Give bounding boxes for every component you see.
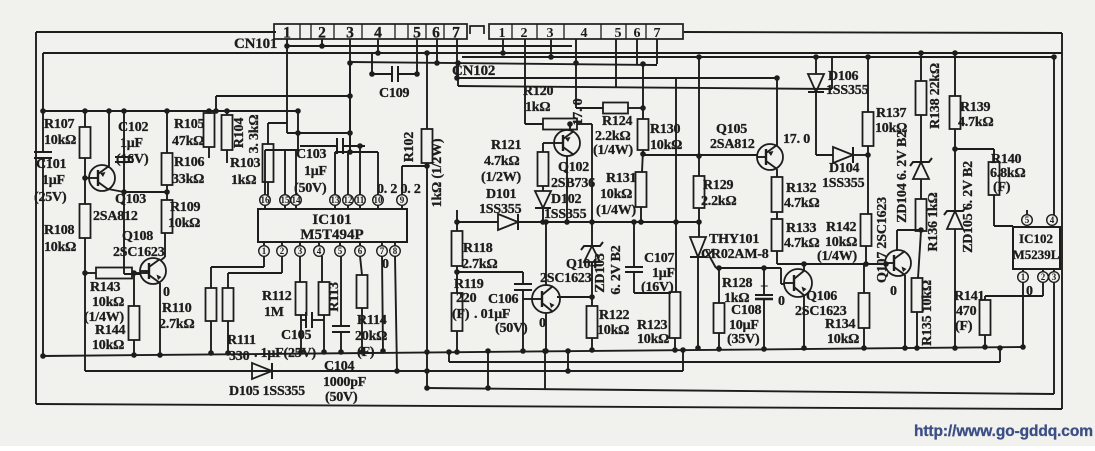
junction bbox=[918, 50, 924, 56]
wire Q104 emitter to R122 bbox=[557, 296, 592, 298]
junction bbox=[347, 60, 353, 66]
svg-text:10kΩ: 10kΩ bbox=[44, 240, 76, 255]
wire THY101 cathode bbox=[697, 256, 699, 348]
resistor R107 bbox=[44, 117, 91, 158]
svg-text:5: 5 bbox=[413, 25, 421, 42]
svg-text:6: 6 bbox=[634, 26, 641, 41]
junction bbox=[673, 219, 679, 225]
svg-text:2.7kΩ: 2.7kΩ bbox=[159, 317, 195, 332]
notch between connectors bbox=[470, 26, 484, 34]
wire C101 bottom bbox=[42, 158, 44, 356]
svg-text:7: 7 bbox=[380, 246, 385, 256]
svg-text:R120: R120 bbox=[523, 84, 554, 99]
wire R118 top lead bbox=[456, 222, 458, 231]
wire R121-D102 bbox=[542, 186, 544, 191]
svg-text:R110: R110 bbox=[162, 301, 192, 316]
resistor R139 bbox=[950, 96, 994, 130]
wire R112 bottom bbox=[300, 315, 302, 352]
junction bbox=[982, 344, 988, 350]
svg-text:7: 7 bbox=[654, 26, 661, 41]
svg-text:(50V): (50V) bbox=[294, 181, 327, 196]
junction bbox=[761, 346, 767, 352]
wire CN101 pin5 bbox=[416, 39, 418, 74]
wire CN102 pin4 bbox=[575, 39, 577, 108]
junction bbox=[716, 346, 722, 352]
wire rail 362 stub bbox=[448, 352, 450, 362]
connector CN101 bbox=[234, 24, 467, 52]
wire R114 bottom bbox=[361, 308, 363, 352]
svg-text:10kΩ: 10kΩ bbox=[827, 332, 859, 347]
junction bbox=[952, 50, 958, 56]
svg-text:(1/2W): (1/2W) bbox=[481, 170, 522, 185]
svg-text:R138 22kΩ: R138 22kΩ bbox=[928, 63, 943, 129]
junction bbox=[500, 50, 506, 56]
svg-text:Q108: Q108 bbox=[122, 229, 153, 244]
wire Q108 collector up bbox=[164, 233, 166, 257]
svg-text:10kΩ: 10kΩ bbox=[44, 133, 76, 148]
resistor R104 bbox=[222, 115, 263, 154]
junction bbox=[347, 93, 353, 99]
resistor R106 bbox=[162, 153, 205, 187]
wire R144 top lead bbox=[133, 273, 135, 306]
junction bbox=[548, 54, 554, 60]
wire C102 bottom column bbox=[123, 162, 125, 274]
svg-text:R139: R139 bbox=[960, 100, 991, 115]
junction bbox=[883, 261, 889, 267]
junction bbox=[952, 146, 958, 152]
wire CN101 pin4 bbox=[377, 39, 379, 53]
svg-text:(35V): (35V) bbox=[727, 332, 760, 347]
wire CN102 pin3 bbox=[550, 39, 552, 57]
resistor R113 bbox=[319, 282, 343, 315]
resistor R108 bbox=[44, 204, 91, 255]
svg-text:7: 7 bbox=[452, 25, 460, 42]
wire Q107 emitter bbox=[904, 275, 906, 348]
junction bbox=[485, 348, 491, 354]
resistor R132 bbox=[772, 177, 820, 212]
svg-text:3: 3 bbox=[1052, 272, 1057, 282]
junction bbox=[106, 108, 112, 114]
wire R120 left lead bbox=[525, 123, 543, 125]
svg-text:3: 3 bbox=[547, 26, 554, 41]
wire R103 top lead bbox=[267, 123, 269, 144]
junction bbox=[589, 219, 595, 225]
resistor R110 bbox=[159, 288, 217, 332]
wire pin1 jog to node bbox=[287, 132, 350, 134]
wire border top-right segment bbox=[684, 32, 1062, 33]
wire Q106 base col bbox=[780, 268, 782, 284]
wire pin15 stub bbox=[284, 150, 286, 195]
wire R134 bottom bbox=[863, 328, 865, 348]
junction bbox=[434, 60, 440, 66]
junction bbox=[520, 348, 526, 354]
junction bbox=[914, 345, 920, 351]
resistor R105 bbox=[172, 113, 215, 149]
transistor Q107 bbox=[885, 250, 911, 276]
svg-text:1M: 1M bbox=[264, 305, 284, 320]
wire C101 top bbox=[42, 53, 44, 152]
svg-text:1: 1 bbox=[283, 25, 291, 42]
junction bbox=[542, 348, 548, 354]
svg-text:5: 5 bbox=[338, 246, 343, 256]
svg-text:3: 3 bbox=[346, 25, 354, 42]
junction bbox=[295, 130, 301, 136]
svg-text:10kΩ: 10kΩ bbox=[600, 187, 632, 202]
svg-text:10kΩ: 10kΩ bbox=[92, 338, 124, 353]
wire R122 bottom bbox=[591, 338, 593, 350]
svg-text:6: 6 bbox=[432, 25, 440, 42]
svg-text:6. 2V B2: 6. 2V B2 bbox=[609, 245, 624, 294]
resistor R114 bbox=[355, 275, 387, 360]
wire D106 top lead bbox=[815, 57, 817, 74]
resistor R140 bbox=[989, 152, 1026, 195]
junction bbox=[680, 347, 686, 353]
wire R104 bottom lead bbox=[226, 150, 228, 163]
junction bbox=[1020, 344, 1026, 350]
junction bbox=[40, 108, 46, 114]
resistor R142 bbox=[817, 214, 872, 264]
resistor R112 bbox=[262, 282, 307, 320]
wire C108 bottom lead bbox=[763, 299, 765, 349]
junction bbox=[672, 347, 678, 353]
wire Q108 base lead bbox=[124, 273, 141, 275]
junction bbox=[543, 348, 549, 354]
svg-text:2: 2 bbox=[280, 246, 285, 256]
diode D104 bbox=[822, 147, 865, 191]
svg-text:R124: R124 bbox=[602, 114, 633, 129]
svg-text:10kΩ: 10kΩ bbox=[825, 235, 857, 250]
zener diode ZD103 bbox=[581, 242, 624, 295]
wire Q103 collector bbox=[108, 189, 124, 192]
junction bbox=[394, 368, 400, 374]
svg-text:R102: R102 bbox=[402, 132, 417, 163]
junction bbox=[321, 349, 327, 355]
junction bbox=[380, 348, 386, 354]
wire rail 362 right stub bbox=[999, 348, 1001, 362]
svg-text:4.7kΩ: 4.7kΩ bbox=[784, 196, 820, 211]
wire Q107 base lead bbox=[885, 263, 886, 265]
diode D102 bbox=[535, 191, 587, 222]
wire R140 bottom bbox=[993, 195, 995, 226]
svg-text:C104: C104 bbox=[324, 359, 355, 374]
svg-text:1: 1 bbox=[499, 26, 506, 41]
wire C103 right bbox=[343, 145, 365, 147]
resistor R122 bbox=[587, 306, 630, 338]
wire R107 top lead bbox=[84, 111, 86, 127]
svg-text:2SB736: 2SB736 bbox=[551, 176, 595, 191]
svg-text:R134: R134 bbox=[825, 317, 856, 332]
wire R124 right lead bbox=[628, 107, 643, 109]
wire R138-ZD104 bbox=[920, 115, 922, 162]
transistor Q104 bbox=[532, 257, 597, 313]
wire pin16 stub bbox=[264, 150, 266, 195]
junction bbox=[695, 345, 701, 351]
svg-text:17. 0: 17. 0 bbox=[571, 98, 586, 125]
wire rail A bbox=[287, 45, 572, 47]
wire border top-left segment bbox=[36, 31, 276, 33]
svg-text:C105: C105 bbox=[281, 328, 312, 343]
junction bbox=[414, 71, 420, 77]
capacitor C106 bbox=[452, 284, 532, 336]
svg-text:2.7kΩ: 2.7kΩ bbox=[462, 257, 498, 272]
wire pin3col down bbox=[349, 63, 351, 152]
junction bbox=[455, 60, 461, 66]
svg-text:2SC1623: 2SC1623 bbox=[113, 245, 165, 260]
wire stub 488 bbox=[487, 351, 489, 388]
wire R106 top lead bbox=[166, 111, 168, 153]
wire stub 568 bbox=[567, 351, 569, 371]
wire C105 left bbox=[301, 319, 306, 321]
resistor R109 bbox=[162, 200, 201, 233]
wire pin12 stub bbox=[347, 152, 349, 195]
resistor R144 bbox=[92, 306, 140, 353]
wire R135 bottom bbox=[916, 312, 918, 348]
wire ZD104-R136 bbox=[920, 179, 922, 199]
capacitor C104 bbox=[323, 326, 366, 405]
wire node268 bbox=[716, 267, 781, 269]
wire ZD103-R122 bbox=[591, 262, 593, 306]
svg-text:4: 4 bbox=[374, 25, 382, 42]
svg-text:Q104: Q104 bbox=[566, 257, 597, 272]
resistor R119 bbox=[452, 277, 484, 331]
capacitor C109 bbox=[379, 66, 410, 101]
svg-text:4.7kΩ: 4.7kΩ bbox=[958, 115, 994, 130]
wire CN102 pin2 bbox=[524, 39, 526, 124]
IC102 top pins 5 4 bbox=[1022, 215, 1058, 227]
wire C108 top lead bbox=[763, 268, 765, 295]
wire pin7 down bbox=[382, 256, 383, 351]
svg-text:5: 5 bbox=[615, 26, 622, 41]
wire R107-R108 bbox=[84, 158, 86, 204]
svg-text:2SA812: 2SA812 bbox=[710, 137, 755, 152]
junction bbox=[295, 108, 301, 114]
junction bbox=[631, 219, 637, 225]
wire pin1 horiz bbox=[211, 266, 264, 268]
svg-text:R137: R137 bbox=[876, 106, 907, 121]
wire R143 col down bbox=[84, 273, 86, 371]
wire R137 top lead bbox=[867, 57, 869, 112]
wire stub rail F right bbox=[831, 57, 833, 89]
wire IC102 pin3 down bbox=[1053, 282, 1055, 394]
wire pin16-14 rail bbox=[265, 149, 298, 151]
junction bbox=[424, 368, 430, 374]
svg-text:6: 6 bbox=[358, 246, 363, 256]
svg-text:R112: R112 bbox=[262, 289, 292, 304]
wire C106 branch bbox=[457, 271, 523, 273]
wire R140 top lead bbox=[993, 149, 995, 162]
wire C103 left bbox=[300, 145, 337, 147]
wire C106 top lead bbox=[522, 272, 524, 284]
wire Q103 emitter up bbox=[108, 111, 110, 168]
svg-text:10kΩ: 10kΩ bbox=[650, 138, 682, 153]
svg-text:10μF: 10μF bbox=[729, 318, 759, 333]
wire D104 right lead bbox=[853, 154, 868, 156]
wire pin2 horiz bbox=[228, 272, 282, 274]
wire C106 bottom lead bbox=[522, 290, 524, 351]
capacitor C103 bbox=[294, 138, 343, 196]
resistor R129 bbox=[694, 176, 737, 209]
wire pin8 down bbox=[395, 256, 397, 371]
transistor Q105 bbox=[710, 122, 783, 170]
svg-text:C108: C108 bbox=[731, 303, 762, 318]
wire Q108 collector jog bbox=[161, 257, 165, 260]
junction bbox=[1051, 54, 1057, 60]
svg-text:1μF: 1μF bbox=[304, 164, 327, 179]
wire stub C109 left bbox=[371, 53, 373, 74]
junction bbox=[565, 368, 571, 374]
wire node222 left bbox=[457, 221, 498, 223]
wire Q102 collector bbox=[569, 124, 571, 131]
junction bbox=[375, 50, 381, 56]
svg-text:1: 1 bbox=[1021, 272, 1026, 282]
svg-text:R119: R119 bbox=[454, 277, 484, 292]
svg-text:R128: R128 bbox=[722, 276, 753, 291]
wire R123 bottom bbox=[674, 338, 676, 350]
svg-text:17. 0: 17. 0 bbox=[783, 132, 810, 147]
wire IC102 pin1 down bbox=[1022, 282, 1024, 347]
svg-text:R111: R111 bbox=[227, 333, 256, 348]
svg-text:2: 2 bbox=[521, 26, 528, 41]
svg-text:330: 330 bbox=[229, 349, 250, 364]
svg-text:R123: R123 bbox=[637, 318, 668, 333]
svg-text:R132: R132 bbox=[786, 181, 817, 196]
wire CN101 pin2 bbox=[321, 39, 323, 46]
svg-text:(F): (F) bbox=[955, 319, 973, 334]
wire Q104 collector bbox=[545, 222, 547, 286]
wire Q106 base bbox=[781, 283, 785, 285]
svg-text:2.2kΩ: 2.2kΩ bbox=[595, 129, 631, 144]
wire C107 to R123 bbox=[634, 292, 671, 294]
wire collector node rail bbox=[124, 191, 167, 193]
wire D104 left lead bbox=[816, 154, 833, 156]
wire R130-R131 bbox=[642, 150, 643, 172]
junction bbox=[640, 61, 646, 67]
junction bbox=[164, 108, 170, 114]
wire C104 bottom bbox=[340, 332, 342, 352]
diode D101 bbox=[479, 187, 522, 230]
junction bbox=[696, 54, 702, 60]
wire pin1 stub bbox=[263, 256, 265, 267]
svg-text:http://www.go-gddq.com: http://www.go-gddq.com bbox=[914, 423, 1093, 440]
wire stub above node222 bbox=[456, 210, 458, 222]
wire CN102 pin1 bbox=[502, 39, 504, 53]
wire C105 right bbox=[312, 319, 324, 321]
svg-text:R103: R103 bbox=[230, 156, 261, 171]
capacitor C102 bbox=[115, 120, 149, 167]
wire Q105 collector down bbox=[776, 169, 778, 177]
wire R141 to pin2 col bbox=[985, 295, 1043, 297]
wire node222 mid bbox=[518, 221, 699, 223]
junction bbox=[454, 269, 460, 275]
wire pin3 stub down bbox=[299, 256, 301, 282]
wire block box corner bbox=[215, 96, 217, 111]
resistor R134 bbox=[825, 293, 870, 347]
junction bbox=[157, 352, 163, 358]
wire CN102 pin5 bbox=[615, 39, 617, 87]
svg-text:4: 4 bbox=[1050, 215, 1055, 225]
svg-text:1SS355: 1SS355 bbox=[822, 176, 865, 191]
wire R103 bottom lead bbox=[267, 182, 269, 195]
wire R124 left lead bbox=[576, 107, 603, 109]
wire CN101 pin3 bbox=[349, 39, 351, 152]
wire rail E bbox=[458, 77, 777, 79]
svg-text:R142: R142 bbox=[826, 220, 857, 235]
svg-text:2SC1623: 2SC1623 bbox=[540, 271, 592, 286]
svg-text:D104: D104 bbox=[829, 161, 860, 176]
wire R132-R133 bbox=[776, 212, 778, 219]
svg-text:(16V): (16V) bbox=[116, 152, 149, 167]
wire pin14 stub bbox=[295, 150, 297, 195]
wire stub 545 bbox=[544, 351, 546, 389]
junction bbox=[774, 75, 780, 81]
wire R140 branch bbox=[955, 148, 994, 150]
junction bbox=[696, 153, 702, 159]
svg-text:M5T494P: M5T494P bbox=[300, 227, 363, 243]
svg-text:1μF: 1μF bbox=[120, 136, 143, 151]
junction bbox=[902, 345, 908, 351]
junction bbox=[357, 143, 363, 149]
wire pin6 down bbox=[360, 256, 362, 275]
svg-text:1kΩ: 1kΩ bbox=[525, 100, 550, 115]
wire CN101 pin6 bbox=[436, 39, 438, 63]
junction bbox=[454, 75, 460, 81]
junction bbox=[861, 345, 867, 351]
svg-text:R107: R107 bbox=[44, 117, 75, 132]
svg-text:6.8kΩ: 6.8kΩ bbox=[990, 166, 1026, 181]
wire R139-ZD105 bbox=[954, 129, 956, 211]
wire ZD103 column bbox=[591, 124, 593, 246]
svg-text:1SS355: 1SS355 bbox=[479, 202, 522, 217]
junction bbox=[863, 261, 869, 267]
diode D105 bbox=[229, 363, 305, 399]
svg-text:16: 16 bbox=[261, 195, 271, 205]
svg-text:2SA812: 2SA812 bbox=[93, 209, 138, 224]
svg-text:R133: R133 bbox=[786, 221, 817, 236]
wire rail D (C109 net) right bbox=[398, 73, 417, 75]
op-amp IC101 bbox=[258, 209, 407, 243]
svg-text:14: 14 bbox=[292, 195, 302, 205]
wire rail C bbox=[350, 62, 657, 65]
svg-text:0: 0 bbox=[539, 316, 546, 331]
wire Q105 emitter up bbox=[776, 78, 778, 146]
wire R137-R142 bbox=[867, 146, 869, 214]
wire Q107 collector bbox=[896, 230, 898, 250]
svg-text:(25V): (25V) bbox=[34, 190, 67, 205]
svg-text:R118: R118 bbox=[463, 241, 493, 256]
transistor Q102 bbox=[551, 130, 595, 191]
junction bbox=[424, 50, 430, 56]
wire D102 bottom lead bbox=[542, 208, 544, 222]
wire CN101 pin1 bbox=[286, 39, 288, 133]
junction bbox=[918, 227, 924, 233]
svg-text:10kΩ: 10kΩ bbox=[597, 323, 629, 338]
resistor R131 bbox=[596, 171, 647, 218]
svg-text:10kΩ: 10kΩ bbox=[168, 216, 200, 231]
resistor R136 bbox=[916, 192, 942, 251]
junction bbox=[208, 350, 214, 356]
wire R129 top column bbox=[698, 57, 700, 176]
junction bbox=[865, 54, 871, 60]
svg-text:R105: R105 bbox=[174, 117, 205, 132]
IC102 bottom pins 1 2 3 bbox=[1018, 269, 1060, 282]
svg-text:R135 10kΩ: R135 10kΩ bbox=[920, 280, 935, 346]
wire C107 top lead bbox=[633, 222, 635, 267]
junction bbox=[589, 294, 595, 300]
svg-text:M5239L: M5239L bbox=[1013, 247, 1060, 262]
capacitor C105 bbox=[254, 312, 316, 361]
wire R131 bottom bbox=[640, 207, 642, 222]
op-amp IC102 bbox=[1013, 227, 1060, 269]
